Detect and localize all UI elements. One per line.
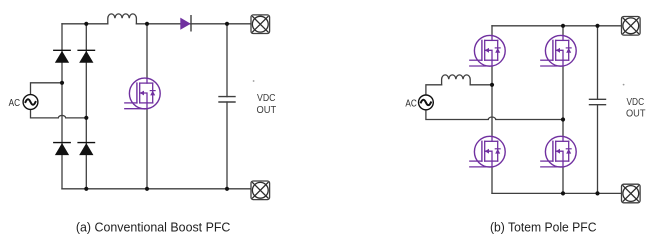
transistor Q1 (MOSFET) (125, 78, 160, 109)
diode D4 (lower right) (78, 143, 94, 155)
transistor Q4 (leg B high side) (541, 35, 576, 66)
svg-text:AC: AC (9, 98, 20, 109)
wire: AC bottom lead with hop over left leg (31, 109, 87, 118)
node: bottom right leg junction (84, 187, 88, 191)
wire: AC top lead to inductor (426, 85, 442, 96)
node: leg B bottom (561, 191, 565, 195)
stray speck right (623, 84, 625, 86)
svg-text:(a) Conventional Boost PFC: (a) Conventional Boost PFC (76, 220, 231, 234)
transistor Q2 (leg A high side) (470, 35, 505, 66)
node: AC return to leg B (561, 117, 565, 121)
node: AC bottom to right leg (84, 116, 88, 120)
node: capacitor top (595, 24, 599, 28)
diode D1 (upper left) (54, 50, 70, 62)
svg-text:VDC: VDC (627, 97, 645, 108)
terminal: VDC+ output (622, 17, 641, 36)
svg-text:AC: AC (405, 98, 416, 109)
wire: top rail left segment (left leg top to inductor) (62, 23, 108, 25)
diode D3 (lower left) (54, 143, 70, 155)
diode D5 boost (purple) (180, 16, 191, 31)
wire: inductor to leg A (470, 84, 492, 86)
terminal: VDC- output (251, 181, 270, 200)
wire: AC bottom lead with hop over leg A (426, 109, 563, 119)
wire: bottom rail (62, 188, 251, 190)
node: inductor to leg A (490, 83, 494, 87)
wire: leg B vertical (562, 26, 564, 194)
inductor L1 (108, 14, 137, 24)
wire: top rail inductor to terminal (136, 23, 251, 25)
capacitor C2 (590, 99, 606, 104)
wire: AC top lead (31, 83, 63, 95)
node: bottom MOSFET junction (145, 187, 149, 191)
node: capacitor bottom (595, 191, 599, 195)
transistor Q5 (leg B low side) (541, 136, 576, 167)
node: top MOSFET junction (145, 22, 149, 26)
svg-text:OUT: OUT (626, 109, 646, 120)
wire: bottom rail (492, 192, 622, 194)
wire: top rail (492, 25, 622, 27)
AC source V2 (419, 95, 434, 110)
wire: capacitor branch bottom (597, 105, 599, 194)
transistor Q3 (leg A low side) (470, 136, 505, 167)
diode D2 (upper right) (78, 50, 94, 62)
wire: MOSFET drain/source vertical (146, 24, 148, 189)
wire: right bridge leg (85, 24, 87, 189)
inductor L2 (442, 75, 471, 85)
wire: capacitor branch bottom (226, 102, 228, 189)
node: leg B top (561, 24, 565, 28)
svg-text:OUT: OUT (257, 105, 277, 116)
capacitor C1 (219, 97, 235, 102)
terminal: VDC+ output (251, 15, 270, 34)
node: top capacitor junction (225, 22, 229, 26)
AC source V1 (23, 95, 38, 110)
wire: left bridge leg (61, 24, 63, 189)
node: bottom capacitor junction (225, 187, 229, 191)
wire: capacitor branch top (226, 24, 228, 97)
svg-text:(b) Totem Pole PFC: (b) Totem Pole PFC (490, 220, 597, 234)
svg-text:VDC: VDC (257, 93, 276, 104)
node: AC top to left leg (60, 81, 64, 85)
wire: leg A vertical (491, 26, 493, 194)
node: top left leg junction (84, 22, 88, 26)
terminal: VDC- output (622, 184, 641, 203)
stray speck left (253, 80, 255, 82)
wire: capacitor branch top (597, 26, 599, 100)
